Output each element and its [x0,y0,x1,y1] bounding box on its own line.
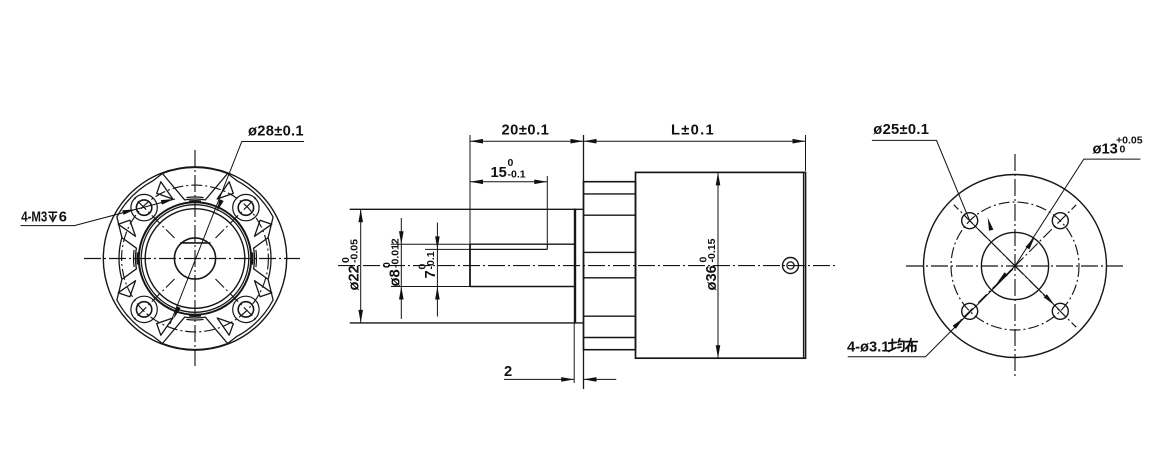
arrowheads dim 7 [435,236,440,249]
output boss top edge + extension [350,208,584,210]
svg-text:L±0.1: L±0.1 [671,123,715,139]
arrowhead dia25 leader at bottom-right hole [1044,294,1055,305]
arrowhead dia3.1 leader at bottom-left hole [953,318,964,329]
svg-text:-0.012: -0.012 [390,238,402,268]
triangle cutout near 155 deg [118,281,135,297]
arrowheads dim dia36 [716,172,721,185]
svg-text:ø8: ø8 [388,269,404,286]
flange front face extension down [573,323,575,383]
dia8 bottom extension [391,286,470,288]
M3 screw hole at 225 deg [136,200,151,215]
motor body [636,172,806,358]
boss circle dia13 [981,232,1048,299]
M3 screw hole at 135 deg [136,302,151,317]
arrowheads dim dia8 [399,231,404,244]
svg-text:-0.15: -0.15 [706,238,718,262]
window cutout at 270 deg [162,174,227,200]
arrowheads dim 15 [470,180,483,185]
arrowhead dia25 leader near top-left hole [988,218,994,231]
triangle cutout near 65 deg [217,318,233,335]
rear mounting hole 3.1mm at 225 deg [962,213,978,229]
svg-text:ø28±0.1: ø28±0.1 [248,124,304,140]
flange front face [574,209,576,323]
arrowheads dim 2 [561,377,574,382]
arrowhead 4-M3 leader second [161,199,174,205]
window cutout at 180 deg [122,238,136,280]
svg-text:0: 0 [508,157,514,169]
gearbox body outline [584,182,636,350]
shaft top edge (round part) [470,243,575,245]
triangle cutout near 245 deg [157,182,173,199]
svg-text:4-ø3.1: 4-ø3.1 [847,340,889,356]
arrowheads dim L [584,139,597,144]
shaft flat edge [470,248,547,250]
leader 4-M3 [21,199,176,226]
arrowhead dia28 leader lower [174,306,181,319]
svg-text:20±0.1: 20±0.1 [502,123,550,139]
leader dia13 [1015,159,1140,266]
bolt circle dash-dot [122,185,269,332]
rear mounting hole 3.1mm at 315 deg [1052,213,1068,229]
dia8 top extension [391,243,470,245]
arrowhead dia3.1 leader inner [997,272,1008,283]
shaft bottom edge [470,286,575,288]
svg-text:7: 7 [423,270,439,278]
svg-text:15: 15 [491,165,507,181]
output boss bottom edge + extension [350,322,584,324]
valley edge arc r57.3 at 90 deg [189,314,201,317]
flat step [546,244,548,249]
7 dim extension [425,248,470,250]
bolt circle dash-dot [951,202,1079,330]
valley edge arc r61.5 at 0 deg [255,250,258,267]
shaft tip face [469,244,471,286]
centerline horizontal [906,265,1123,267]
dim dia36 line [717,172,719,358]
motor end cap line [803,172,805,358]
dim 2 line left [504,378,574,380]
rear diagonal centerline at 225 deg [954,205,1015,266]
rear diagonal centerline at 45 deg [1015,266,1076,327]
boss circle around hole at 315 deg [233,194,259,220]
window cutout at 0 deg [254,238,269,280]
svg-text:6: 6 [59,209,67,225]
extension line 20/15 left [469,135,471,244]
boss ring circle outer [139,202,251,314]
svg-text:-0.05: -0.05 [349,239,361,263]
bore circle [145,209,245,309]
boss circle around hole at 225 deg [131,194,157,220]
arrowhead 4-M3 leader at hole [122,209,135,215]
extension line L right [805,135,807,171]
gearbox front face + extensions [583,135,585,389]
dim dia8 line [400,218,402,319]
centerline horizontal [84,258,300,260]
dim 2 line right [584,378,617,380]
diagonal centerline at 45 deg [216,279,258,321]
valley edge arc r61.5 at 270 deg [186,196,203,199]
gearbox rib lines [584,193,636,195]
gear-shaped carrier contour [117,167,273,349]
svg-text:ø25±0.1: ø25±0.1 [873,122,929,138]
dim 15 line [470,181,547,183]
svg-text:4-M3: 4-M3 [21,208,47,225]
svg-text:2: 2 [504,364,512,380]
outer flange circle [103,167,286,350]
centerline [338,265,837,267]
hanzi jun (evenly) [889,339,904,352]
motor end screw inner [787,262,794,269]
arrowhead dia13 leader on circle [1026,237,1035,249]
arrowheads dim 20 [470,139,483,144]
valley edge arc r61.5 at 180 deg [132,250,135,267]
dim L line [584,140,806,142]
rear mounting hole 3.1mm at 45 deg [1052,303,1068,319]
rear diagonal centerline at 135 deg [954,266,1015,327]
label 4-M3 depth 6 [21,208,47,225]
boss circle around hole at 45 deg [233,296,259,322]
leader dia28 [170,142,304,325]
centerline vertical [194,150,196,366]
boss ring circle inner [141,205,249,313]
motor end screw outer [783,258,799,274]
shaft flat line [180,242,210,244]
diagonal centerline at 315 deg [216,196,258,238]
extension line 15 right [546,176,548,244]
dim dia22 line [360,209,362,323]
valley edge arc r57.3 at 180 deg [137,253,140,265]
svg-text:ø36: ø36 [704,265,720,290]
rear mounting hole 3.1mm at 135 deg [962,303,978,319]
shaft hole with flat [174,238,215,279]
svg-text:0: 0 [1120,144,1126,156]
valley edge arc r61.5 at 90 deg [186,318,203,321]
svg-text:-0.1: -0.1 [508,169,526,181]
valley edge arc r57.3 at 0 deg [251,253,254,265]
rear diagonal centerline at 315 deg [1015,205,1076,266]
dim 7 line [436,223,438,317]
triangle cutout near 295 deg [217,182,233,199]
valley edge arc r57.3 at 270 deg [189,200,201,203]
depth symbol [48,212,57,221]
svg-text:ø13: ø13 [1093,142,1118,158]
leader dia25 [872,140,1060,310]
diagonal centerline at 135 deg [132,279,174,321]
triangle cutout near -25 deg [255,220,272,236]
triangle cutout near 115 deg [157,318,173,335]
arrowheads dim dia22 [358,209,363,222]
motor outer circle [924,175,1107,358]
svg-text:-0.1: -0.1 [425,251,437,269]
svg-text:ø22: ø22 [347,265,363,290]
triangle cutout near 205 deg [118,220,135,236]
leader 4-dia3.1 [848,269,1013,357]
window cutout at 90 deg [162,317,227,343]
arrowhead dia28 leader upper [217,199,224,212]
diagonal centerline at 225 deg [132,196,174,238]
dim 20 line [470,140,584,142]
boss circle around hole at 135 deg [131,296,157,322]
hanzi bu (distributed) [906,339,918,352]
M3 screw hole at 315 deg [238,200,253,215]
M3 screw hole at 45 deg [238,302,253,317]
coupling box [584,252,636,277]
triangle cutout near 25 deg [255,281,272,297]
centerline vertical [1014,154,1016,376]
